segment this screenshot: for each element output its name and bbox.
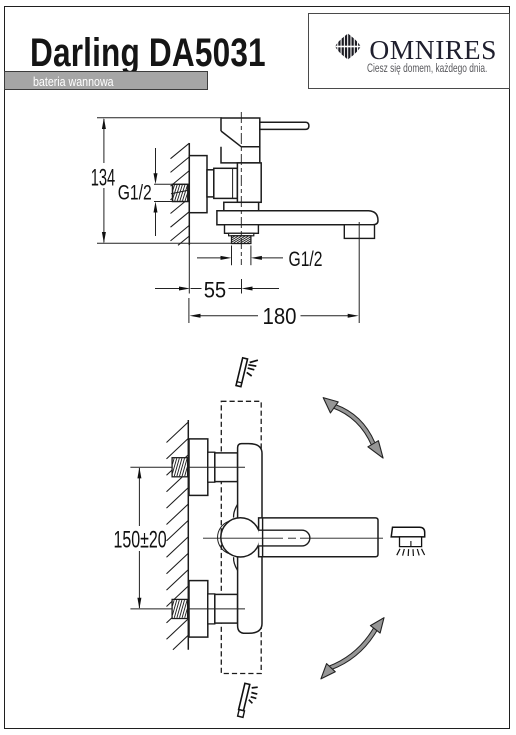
- leader line from nipple to body: [171, 185, 217, 194]
- swivel arrow bottom: [321, 618, 384, 679]
- lower inlet nipple (hatched): [172, 599, 188, 618]
- shower hose thread outlet (hatched): [232, 236, 251, 244]
- sphere joint: [221, 518, 260, 557]
- svg-text:180: 180: [263, 303, 297, 329]
- collar below spout: [225, 225, 259, 234]
- lower nut: [215, 594, 238, 623]
- step below collar: [229, 233, 254, 236]
- OMNIRES diamond logo mark: [309, 14, 511, 90]
- lever handle (side view): [260, 122, 309, 129]
- wall hatching (bottom drawing): [167, 422, 189, 650]
- vertical centerline (side view): [240, 112, 242, 265]
- spout end outlet box: [344, 225, 374, 239]
- wall hatching: [171, 143, 190, 245]
- 150±20 arrowheads: [137, 467, 141, 609]
- svg-text:G1/2: G1/2: [289, 247, 323, 271]
- logo box: [308, 13, 511, 89]
- upper inlet nipple (hatched): [172, 458, 188, 477]
- spout shower icon right: [391, 527, 425, 556]
- handle base block (side view): [221, 118, 260, 163]
- lower escutcheon: [189, 581, 208, 638]
- upper neck: [208, 452, 215, 482]
- wall face line: [188, 143, 190, 245]
- arrowheads top drawing: [102, 118, 106, 129]
- svg-text:134: 134: [91, 164, 116, 191]
- hand shower icon top: [236, 358, 258, 387]
- svg-text:55: 55: [204, 278, 227, 303]
- G1/2 left label leaders: [154, 183, 172, 185]
- neck (side view): [207, 170, 214, 197]
- body-sphere fillet top: [234, 505, 238, 518]
- 150±20 dimension: [130, 467, 245, 609]
- G1/2 bottom dim: [231, 246, 233, 266]
- escutcheon (side view): [189, 156, 207, 213]
- body right edge over spout: [262, 518, 264, 557]
- faucet body (front view): [238, 444, 262, 634]
- svg-text:150±20: 150±20: [114, 527, 167, 554]
- G1/2 threaded nipple (side view): [173, 184, 188, 201]
- gray category bar: [4, 71, 208, 91]
- upper escutcheon: [189, 439, 208, 496]
- nut (side view): [214, 168, 238, 198]
- spout (side view): [217, 211, 378, 225]
- dashed mounting outline: [221, 401, 261, 673]
- horizontal centerline: [203, 537, 383, 539]
- 180 dimension: [188, 298, 190, 323]
- 55 dimension: [188, 245, 190, 293]
- body-sphere fillet bottom: [234, 557, 238, 570]
- lower neck: [208, 594, 215, 624]
- lever capsule (front view): [259, 530, 310, 546]
- spout (front view): [259, 518, 378, 557]
- 134 top extension line: [97, 117, 222, 119]
- sphere inner arc: [218, 521, 229, 553]
- upper nut: [215, 453, 238, 482]
- hand shower icon bottom: [238, 683, 258, 717]
- 134 bottom extension line: [97, 242, 231, 244]
- main body (side view): [237, 163, 261, 202]
- product title: [30, 31, 266, 76]
- collar below body: [224, 202, 259, 211]
- swivel arrow top: [323, 398, 383, 459]
- OMNIRES wordmark and tagline: [309, 14, 511, 90]
- wall face line (bottom drawing): [187, 420, 189, 650]
- 134 dimension line: [103, 119, 105, 163]
- svg-text:G1/2: G1/2: [118, 181, 152, 205]
- dimension labels: [91, 164, 323, 553]
